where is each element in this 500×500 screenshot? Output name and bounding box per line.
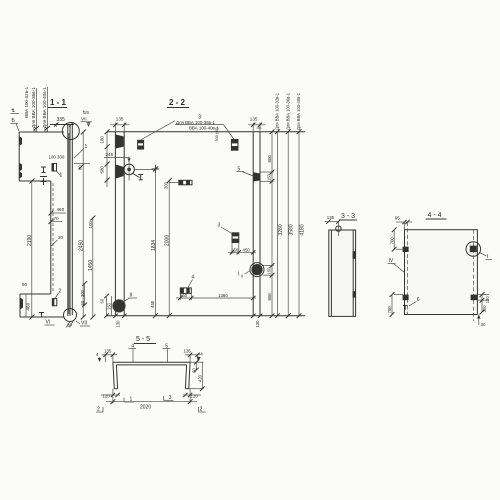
dim 80 tick right of web xyxy=(74,164,90,171)
interior dim vline B 2000 xyxy=(164,178,171,318)
svg-text:1360: 1360 xyxy=(218,293,228,298)
svg-text:80: 80 xyxy=(78,165,83,170)
svg-text:420: 420 xyxy=(198,374,203,382)
svg-text:135: 135 xyxy=(250,117,258,122)
title 4-4 xyxy=(426,212,447,219)
embedded plate H1 with 300 dim xyxy=(164,180,193,189)
svg-text:100: 100 xyxy=(88,221,93,229)
anchor mark left xyxy=(40,167,47,185)
svg-text:1450: 1450 xyxy=(88,260,94,271)
dim 750 lower-left of 4-4 xyxy=(387,292,403,317)
section 4-4 body xyxy=(405,230,478,315)
section 3-3 body xyxy=(329,230,356,316)
long variant line 4180 xyxy=(297,129,306,318)
svg-text:2: 2 xyxy=(200,407,203,413)
dim 30 bottom of 4-4 xyxy=(477,315,486,328)
label 4 top with leader xyxy=(129,343,137,362)
svg-text:65: 65 xyxy=(395,215,400,220)
dim line 2190 xyxy=(27,179,35,320)
svg-text:2020: 2020 xyxy=(140,405,151,411)
dims 60 150 bottom left of 2-2 xyxy=(100,294,112,318)
svg-text:150: 150 xyxy=(107,302,112,310)
VII label bottom right xyxy=(76,321,90,327)
svg-text:ВВА 100-32в-1: ВВА 100-32в-1 xyxy=(24,86,29,118)
svg-text:2000: 2000 xyxy=(164,235,170,246)
svg-text:130: 130 xyxy=(255,320,260,328)
plate 2 bottom with label xyxy=(52,289,61,306)
svg-text:3: 3 xyxy=(218,222,221,228)
dim line x107 with 180 / 580 xyxy=(100,129,110,187)
svg-text:1: 1 xyxy=(60,173,63,179)
svg-text:300: 300 xyxy=(482,305,487,313)
svg-text:20: 20 xyxy=(58,235,64,240)
dim 135 top-right xyxy=(248,117,266,132)
svg-text:1: 1 xyxy=(85,144,88,150)
web of panel (vertical) xyxy=(68,124,73,316)
svg-text:135: 135 xyxy=(327,215,335,220)
right edge plate 5 xyxy=(253,172,259,181)
svg-text:3 - 3: 3 - 3 xyxy=(341,213,355,220)
long variant line 3280 xyxy=(275,129,284,318)
svg-text:700: 700 xyxy=(389,237,394,245)
svg-text:6: 6 xyxy=(417,297,420,303)
label 1 xyxy=(124,397,134,403)
title 1-1 xyxy=(48,98,67,108)
section 1-1 outline top-left block xyxy=(19,132,64,181)
svg-text:Для ВВА 100-32в-1: Для ВВА 100-32в-1 xyxy=(275,92,280,130)
svg-text:450: 450 xyxy=(243,247,251,252)
label 20 with leader xyxy=(51,235,64,246)
embedded plate in 1-1 xyxy=(52,164,63,179)
channel profile xyxy=(113,362,190,389)
svg-text:IV: IV xyxy=(389,258,394,264)
label 1 upper xyxy=(74,144,88,158)
plates on right edge of 3-3 xyxy=(353,251,356,297)
dim 2020 xyxy=(106,389,197,411)
interior dim vline A 1834 xyxy=(151,167,158,319)
svg-text:450: 450 xyxy=(150,300,155,308)
svg-text:1 - 1: 1 - 1 xyxy=(50,98,67,107)
label 3 with leader text block xyxy=(141,114,235,140)
svg-text:180: 180 xyxy=(100,136,105,144)
chain x272 with 860/150/150/860 xyxy=(261,129,275,318)
svg-text:150: 150 xyxy=(267,267,272,275)
label 5 xyxy=(237,167,254,177)
detail circle top of web xyxy=(62,123,79,140)
anchor near circle xyxy=(133,174,143,180)
title 3-3 xyxy=(339,213,357,220)
plate squares 4-4 xyxy=(403,247,478,301)
right vertical dims 50 420 xyxy=(189,360,205,391)
svg-text:860: 860 xyxy=(267,155,272,163)
panel top edge xyxy=(107,131,305,133)
svg-text:120: 120 xyxy=(102,393,110,398)
svg-text:135: 135 xyxy=(184,349,192,354)
title 2-2 xyxy=(167,98,189,108)
dashed hidden lines 4-4 xyxy=(407,222,473,321)
svg-text:70: 70 xyxy=(54,216,60,221)
svg-text:30: 30 xyxy=(481,322,486,327)
svg-text:335: 335 xyxy=(57,117,66,123)
svg-text:1834: 1834 xyxy=(151,240,157,251)
svg-text:VII: VII xyxy=(81,117,87,122)
30 under bottom circle xyxy=(66,322,73,328)
svg-text:60: 60 xyxy=(100,298,105,303)
dim 135 top of 3-3 xyxy=(325,215,341,224)
svg-text:50: 50 xyxy=(22,282,27,287)
svg-text:3580: 3580 xyxy=(289,224,295,235)
svg-text:5 - 5: 5 - 5 xyxy=(136,336,150,343)
dim 135 top-left xyxy=(110,117,130,132)
svg-text:100 300: 100 300 xyxy=(49,155,65,160)
embedded plate 3 with dims 150 450 xyxy=(218,222,257,254)
dim line 1450 / 100 xyxy=(88,216,95,320)
variant label extension lines xyxy=(37,87,48,132)
svg-text:135: 135 xyxy=(116,117,124,122)
lifting hole circle left xyxy=(124,157,156,181)
svg-text:50: 50 xyxy=(192,367,197,372)
svg-text:Для ВВА 100-36в-1: Для ВВА 100-36в-1 xyxy=(31,87,36,128)
variant labels left (rotated) xyxy=(24,86,47,128)
top-right arrow 4 xyxy=(197,351,203,360)
label 3 xyxy=(164,395,174,401)
title 5-5 xyxy=(134,336,156,344)
cross mark end of centerline xyxy=(152,165,160,173)
svg-text:300: 300 xyxy=(80,289,85,297)
embedded plate V1 xyxy=(138,140,144,149)
dim 65 top-left of 4-4 xyxy=(395,215,412,229)
svg-text:4180: 4180 xyxy=(299,224,305,235)
dim 135 top-left 5-5 xyxy=(102,349,117,362)
left edge notches xyxy=(19,136,22,179)
panel left edge double xyxy=(115,132,124,316)
label IV xyxy=(388,258,405,273)
svg-text:560: 560 xyxy=(180,293,188,298)
loop circle top of 3-3 xyxy=(336,222,341,236)
svg-text:II: II xyxy=(130,293,133,299)
detail circle bottom of web xyxy=(64,309,77,322)
variant labels right (rotated) xyxy=(275,92,302,130)
svg-text:Для ВВА 100-40в-1: Для ВВА 100-40в-1 xyxy=(296,92,301,130)
dim 245 xyxy=(104,152,131,162)
svg-text:150: 150 xyxy=(231,247,239,252)
dim 135 top-right 5-5 xyxy=(184,349,201,362)
bottom-left dim 120 xyxy=(101,393,120,399)
svg-text:860: 860 xyxy=(267,293,272,301)
bottom-left notch xyxy=(20,298,23,310)
svg-text:4: 4 xyxy=(192,275,195,281)
dims 300 60 bottom right of web xyxy=(80,281,87,307)
svg-text:2: 2 xyxy=(59,289,62,295)
svg-text:Для ВВА 100-36в-1: Для ВВА 100-36в-1 xyxy=(285,92,290,130)
svg-text:460: 460 xyxy=(57,207,65,212)
svg-text:4 - 4: 4 - 4 xyxy=(428,212,442,219)
svg-text:2190: 2190 xyxy=(27,235,33,246)
svg-text:245: 245 xyxy=(106,152,114,157)
svg-text:150: 150 xyxy=(267,173,272,181)
hidden flange line xyxy=(51,181,53,294)
svg-text:2450: 2450 xyxy=(79,240,85,251)
section 1-1 outline bottom-left block xyxy=(20,294,65,317)
dim 700 left of 4-4 xyxy=(389,227,403,251)
bottom-right dim 120 xyxy=(183,393,201,399)
label 6 with anchor xyxy=(403,297,420,310)
svg-text:VII: VII xyxy=(81,321,87,327)
right edge blob with detail circle Ib xyxy=(238,263,265,279)
embedded plate V2 xyxy=(231,139,238,150)
small 30 ticks at label feet xyxy=(32,126,51,132)
svg-text:⇅5: ⇅5 xyxy=(83,110,90,115)
detail circle I top right xyxy=(466,242,492,260)
panel right edge double xyxy=(253,132,260,316)
svg-text:4: 4 xyxy=(200,351,203,356)
long variant line 3580 xyxy=(286,129,295,318)
left edge plates dark xyxy=(116,135,124,179)
svg-text:4: 4 xyxy=(96,352,99,357)
svg-text:60: 60 xyxy=(80,300,85,305)
label 2 left xyxy=(96,407,103,413)
svg-text:130: 130 xyxy=(116,320,121,328)
dims 130 300 right of 4-4 xyxy=(478,292,490,314)
svg-text:Для ВВА 100-36в-1: Для ВВА 100-36в-1 xyxy=(176,120,215,125)
svg-text:VI: VI xyxy=(46,320,51,326)
svg-text:130: 130 xyxy=(485,296,490,304)
anchor + VI label bottom xyxy=(39,313,55,326)
weld flag 5/VII above circle xyxy=(81,110,93,126)
svg-text:2: 2 xyxy=(97,407,100,413)
embedded plate 4 with dims 560 1360 xyxy=(176,275,256,301)
left weld flag xyxy=(11,108,20,131)
svg-text:2 - 2: 2 - 2 xyxy=(169,98,186,107)
dim 335 top xyxy=(50,117,74,127)
svg-text:300: 300 xyxy=(164,181,169,189)
bottom-left lifting loop dark xyxy=(113,293,137,313)
panel bottom edge xyxy=(107,315,305,317)
label 2 right xyxy=(199,407,206,413)
svg-text:580: 580 xyxy=(100,166,105,174)
top-left arrow 4 xyxy=(96,352,101,362)
svg-text:750: 750 xyxy=(387,306,392,314)
svg-text:⇅: ⇅ xyxy=(11,108,15,114)
svg-text:Для ВВА 100-40в-1: Для ВВА 100-40в-1 xyxy=(42,87,47,128)
svg-text:3280: 3280 xyxy=(278,224,284,235)
dim line 2450 xyxy=(79,130,86,320)
label 5 top with leader xyxy=(163,343,171,362)
dim 460 bottom-left rotated xyxy=(26,294,31,317)
svg-text:300 (45): 300 (45) xyxy=(215,127,219,142)
dim 460 / 70 on flange xyxy=(49,207,67,224)
dims 130 under edges xyxy=(113,314,262,328)
